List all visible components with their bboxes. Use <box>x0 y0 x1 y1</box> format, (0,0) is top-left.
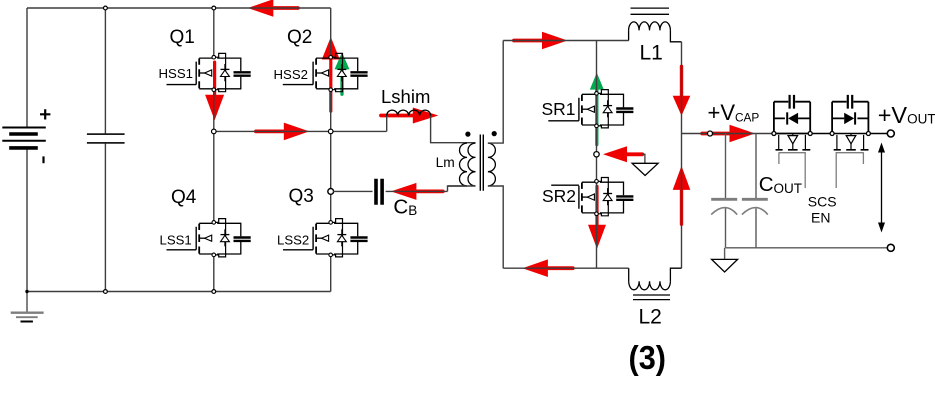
current arrow: L2 return (red, up) <box>680 190 683 224</box>
svg-text:HSS2: HSS2 <box>274 67 308 82</box>
svg-text:SR2: SR2 <box>542 186 576 206</box>
core of L2 <box>633 295 670 300</box>
wire: SCS interconnects <box>776 133 887 135</box>
capacitor C_OUT (two parallel) <box>726 134 757 248</box>
node A <box>212 129 217 134</box>
node: Q1 drain junction on top rail <box>212 6 216 10</box>
svg-text:L1: L1 <box>640 42 663 65</box>
wire: SR branch <box>596 41 598 269</box>
wire: secondary to output loop <box>488 41 503 269</box>
load switch U1 (SCS pass FET, diode facing left) <box>772 95 812 188</box>
current arrow: to +VCAP (red, right) <box>702 132 729 136</box>
current arrow: through Lshim (red, right) <box>381 114 413 118</box>
current arrow: through Q2 channel (red, up) <box>329 60 332 112</box>
junction dot: battery to bottom rail <box>25 290 28 293</box>
svg-text:Lshim: Lshim <box>381 86 430 107</box>
transistor Q3 / LSS2 <box>283 219 368 257</box>
svg-text:EN: EN <box>811 210 830 226</box>
wire: battery vertical + bottom input rail <box>27 8 331 292</box>
svg-text:Q1: Q1 <box>170 27 195 48</box>
current arrow: Q2 body diode (green, up) <box>340 69 343 94</box>
node: C_IN bottom <box>104 290 108 294</box>
inductor L1 <box>628 30 630 40</box>
node: C_IN top <box>104 6 108 10</box>
wire: +VCAP rail <box>682 133 774 135</box>
wire: Lshim to transformer primary top <box>431 116 476 143</box>
transformer dot (secondary) <box>492 131 497 136</box>
wire: secondary top rail <box>503 40 628 42</box>
node: Q4 source junction on bottom rail <box>212 290 216 294</box>
svg-text:SR1: SR1 <box>542 99 576 119</box>
wire: primary bottom to C_B jog <box>448 185 476 187</box>
ground (SR midpoint reference) <box>642 154 645 163</box>
transformer dot (primary) <box>465 132 470 137</box>
inductor L2 <box>628 268 630 281</box>
svg-text:Lm: Lm <box>436 155 455 170</box>
current arrow: top rail (red, left) <box>273 6 298 10</box>
svg-text:LSS2: LSS2 <box>277 233 309 248</box>
core of L1 <box>631 8 670 14</box>
terminal: +VCAP <box>708 131 713 136</box>
current arrow: node A to node B (red, right) <box>256 129 284 133</box>
wire: output bottom rail <box>726 247 888 249</box>
current arrow: into C_B (red, left) <box>416 189 442 193</box>
load switch U2 (SCS pass FET, diode facing right) <box>830 95 870 188</box>
transistor Q4 / LSS1 <box>167 219 251 257</box>
transistor SR2 <box>551 178 633 216</box>
transformer core <box>480 135 483 191</box>
current arrow: through SR1 (green, up) <box>595 90 598 145</box>
current arrow: into SR midpoint (red, left) <box>627 152 642 156</box>
svg-text:SCS: SCS <box>808 194 837 210</box>
current arrow: through Q1 (red, down) <box>213 62 216 95</box>
svg-text:Q4: Q4 <box>171 187 197 208</box>
svg-text:LSS1: LSS1 <box>160 233 192 248</box>
svg-text:HSS1: HSS1 <box>159 66 193 81</box>
transistor Q1 / HSS1 <box>167 53 251 91</box>
transistor Q2 / HSS2 <box>283 53 368 91</box>
capacitor C_IN <box>104 8 106 292</box>
transformer: secondary winding <box>488 143 495 186</box>
current arrow: L1 output (red, down) <box>680 66 683 95</box>
wire: Q2/Q3 branch <box>330 8 332 292</box>
terminal: output bottom <box>887 244 894 251</box>
transformer: primary winding + Lm <box>459 143 467 186</box>
wire: Q1/Q4 branch <box>213 8 215 292</box>
output voltage span arrow <box>881 149 883 227</box>
inductor Lshim <box>387 110 431 115</box>
capacitor C_B <box>333 186 467 191</box>
node: SR midpoint <box>594 152 599 157</box>
current arrow: secondary bottom rail (red, left) <box>548 266 573 270</box>
ground (output side) <box>724 248 726 260</box>
node B <box>328 129 333 134</box>
ground (input side) <box>26 292 28 313</box>
svg-text:Q2: Q2 <box>287 27 312 48</box>
svg-text:L2: L2 <box>639 306 662 329</box>
wire: right output vertical <box>681 42 683 268</box>
wire: top input rail <box>27 7 331 9</box>
node: C_B tap on Q2/Q3 branch <box>328 189 334 195</box>
wire: phase node A to node B to Lshim <box>216 116 387 132</box>
terminal: +VOUT top <box>887 130 894 137</box>
svg-text:Q3: Q3 <box>289 186 314 207</box>
transistor SR1 <box>548 90 633 128</box>
current arrow: through SR2 (red, down) <box>595 186 598 224</box>
svg-text:(3): (3) <box>629 339 667 376</box>
current arrow: secondary top rail (red, right) <box>514 39 542 43</box>
wire: secondary bottom rail <box>503 267 629 269</box>
battery V_IN <box>2 109 50 163</box>
